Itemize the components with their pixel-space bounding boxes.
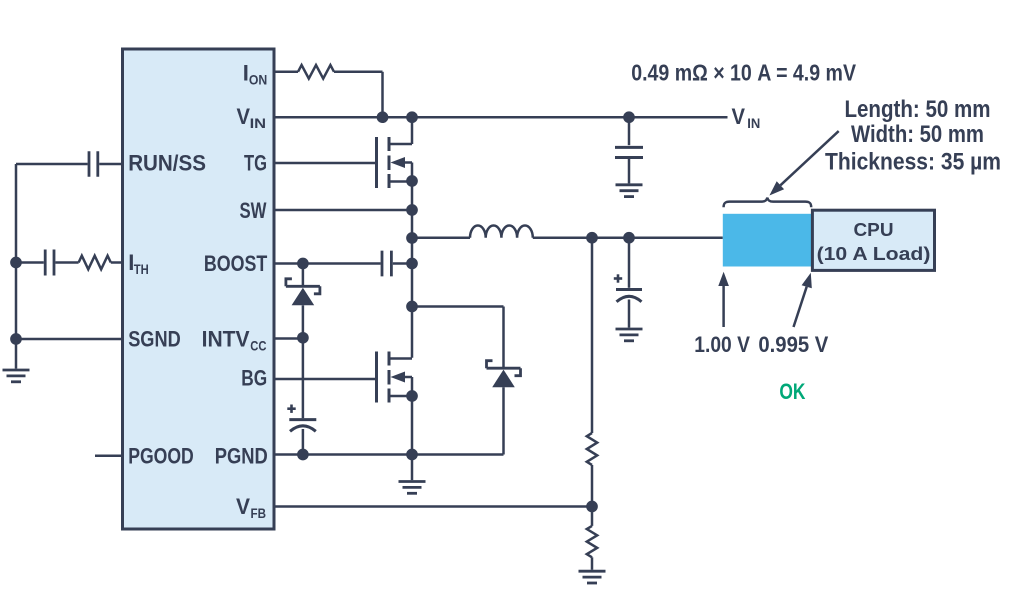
svg-text:(10 A Load): (10 A Load)	[817, 243, 931, 264]
svg-text:1.00 V: 1.00 V	[694, 332, 750, 357]
svg-text:TG: TG	[244, 151, 267, 176]
svg-text:BOOST: BOOST	[204, 251, 268, 276]
svg-text:Thickness: 35 µm: Thickness: 35 µm	[825, 148, 1001, 175]
svg-text:OK: OK	[779, 379, 805, 404]
svg-text:INTV: INTV	[202, 327, 250, 352]
svg-text:0.995 V: 0.995 V	[758, 332, 828, 357]
svg-text:CC: CC	[250, 338, 266, 354]
svg-text:TH: TH	[134, 261, 149, 277]
svg-text:PGND: PGND	[215, 443, 268, 468]
svg-text:IN: IN	[250, 115, 267, 131]
svg-text:SGND: SGND	[128, 327, 181, 352]
svg-text:BG: BG	[241, 366, 267, 391]
svg-text:Length: 50 mm: Length: 50 mm	[844, 96, 990, 123]
svg-text:V: V	[237, 104, 251, 129]
svg-text:Width: 50 mm: Width: 50 mm	[851, 121, 984, 148]
svg-text:0.49 mΩ × 10 A = 4.9 mV: 0.49 mΩ × 10 A = 4.9 mV	[631, 60, 856, 86]
svg-text:IN: IN	[747, 115, 760, 131]
svg-text:CPU: CPU	[854, 219, 894, 240]
svg-text:ON: ON	[249, 71, 267, 87]
svg-text:V: V	[236, 494, 250, 519]
svg-text:FB: FB	[251, 505, 267, 521]
svg-text:V: V	[732, 104, 746, 129]
svg-text:PGOOD: PGOOD	[128, 443, 194, 468]
svg-text:RUN/SS: RUN/SS	[128, 151, 206, 176]
svg-text:SW: SW	[240, 198, 267, 223]
